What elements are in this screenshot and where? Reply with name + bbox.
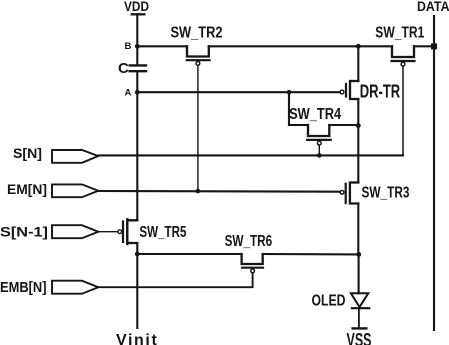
wire capacitor bottom plate to node A: [136, 72, 138, 92]
wire node B to capacitor top plate: [136, 46, 138, 64]
wire SW_TR2 gate to EM[N] net: [197, 66, 199, 192]
power VSS terminal bar: [353, 327, 367, 329]
svg-text:SW_TR3: SW_TR3: [362, 185, 410, 202]
svg-text:A: A: [125, 88, 132, 99]
transistor SW_TR5 gate bubble: [118, 230, 122, 234]
transistor DR-TR gate bubble: [340, 90, 344, 94]
wire node A to DR-TR gate: [137, 91, 339, 93]
wire SW_TR1 gate to S[N] net: [402, 66, 404, 155]
transistor SW_TR1 gate bar: [392, 60, 415, 62]
input EM[N] flag: [52, 184, 98, 197]
transistor SW_TR6 gate bar: [242, 267, 263, 269]
svg-text:DATA: DATA: [417, 0, 449, 14]
wire OLED cathode to VSS: [358, 309, 360, 327]
wire S[N] net: [99, 154, 403, 156]
transistor SW_TR3 gate bar: [345, 184, 347, 203]
svg-text:EMB[N]: EMB[N]: [0, 279, 47, 296]
wire DR-TR source down to SW_TR3: [357, 99, 359, 183]
wire SW_TR2 drain to node at DR-TR drain: [209, 45, 358, 47]
power VDD terminal bar: [132, 13, 145, 15]
wire SW_TR6 drain to OLED node: [263, 253, 359, 255]
net DATA vertical line: [433, 16, 435, 330]
transistor SW_TR6 channel: [242, 254, 263, 264]
junction SW_TR6 drain on OLED branch: [356, 252, 361, 257]
svg-text:OLED: OLED: [312, 293, 346, 310]
transistor SW_TR2 gate bubble: [196, 62, 200, 66]
transistor SW_TR1 channel: [392, 46, 414, 57]
input S[N-1] flag: [52, 225, 98, 238]
svg-text:S[N]: S[N]: [13, 145, 42, 161]
wire SW_TR1 drain to DATA: [414, 45, 434, 47]
net Vinit vertical wire upper segment: [136, 92, 138, 220]
svg-text:VSS: VSS: [347, 331, 372, 345]
transistor SW_TR3 channel: [350, 183, 358, 204]
junction top wire / DR-TR drain: [356, 44, 361, 49]
transistor SW_TR4 channel: [308, 125, 329, 136]
wire OLED anode: [358, 254, 360, 293]
wire SW_TR5 drain down Vinit line: [136, 243, 138, 328]
transistor DR-TR channel: [350, 81, 358, 99]
svg-text:Vinit: Vinit: [116, 332, 158, 345]
diode OLED cathode bar: [352, 307, 369, 309]
wire SW_TR4 gate to S[N] net: [318, 145, 320, 155]
transistor SW_TR3 gate bubble: [340, 190, 344, 194]
wire junction to SW_TR6 source: [137, 253, 241, 255]
transistor DR-TR gate bar: [345, 84, 347, 97]
svg-text:SW_TR5: SW_TR5: [139, 224, 186, 241]
wire EMB[N] net: [99, 273, 253, 287]
svg-text:DR-TR: DR-TR: [360, 81, 401, 102]
capacitor C bottom plate: [130, 70, 146, 72]
svg-text:VDD: VDD: [124, 0, 149, 14]
svg-text:SW_TR1: SW_TR1: [375, 25, 424, 42]
transistor SW_TR4 gate bubble: [317, 141, 321, 145]
input EMB[N] flag: [52, 281, 98, 294]
junction SW_TR4 gate on S[N] net: [317, 153, 322, 158]
transistor SW_TR2 channel: [187, 46, 209, 56]
transistor SW_TR5 channel: [127, 220, 137, 243]
transistor SW_TR5 channel bar: [126, 219, 128, 244]
transistor SW_TR2 gate bar: [187, 59, 210, 61]
wire VDD to node B: [136, 14, 138, 46]
capacitor C top plate: [130, 64, 146, 66]
wire EM[N] net: [99, 190, 340, 193]
wire node B to SW_TR2 source: [137, 45, 187, 47]
junction SW_TR2 gate on EM[N] net: [196, 189, 201, 194]
svg-text:B: B: [125, 41, 132, 52]
wire SW_TR4 drain to DR-TR source line: [329, 124, 358, 126]
wire S[N-1] to SW_TR5 gate: [99, 231, 118, 233]
junction SW_TR4 drain on DR-TR source line: [356, 123, 361, 128]
transistor SW_TR5 gate bar: [122, 222, 124, 243]
junction SW_TR5 drain / SW_TR6 branch: [135, 252, 140, 257]
transistor SW_TR4 gate bar: [307, 139, 331, 141]
transistor SW_TR6 gate bubble: [251, 269, 255, 273]
transistor DR-TR drain wire: [357, 46, 359, 81]
svg-text:C: C: [118, 60, 129, 77]
wire node A branch down to SW_TR4 source: [288, 92, 290, 125]
svg-text:EM[N]: EM[N]: [7, 181, 47, 197]
wire SW_TR4 source lead: [289, 124, 308, 126]
transistor SW_TR1 gate bubble: [401, 62, 405, 66]
input S[N] flag: [52, 150, 98, 163]
svg-text:SW_TR6: SW_TR6: [225, 233, 273, 250]
junction node A wire / SW_TR4 source branch: [287, 90, 292, 95]
wire junction to SW_TR1 source: [358, 45, 392, 47]
svg-text:SW_TR4: SW_TR4: [289, 106, 341, 123]
diode OLED triangle: [351, 293, 368, 307]
node A: [135, 90, 140, 95]
junction SW_TR1 drain on DATA: [431, 43, 437, 49]
wire SW_TR3 source down to OLED: [357, 204, 359, 255]
node B: [135, 44, 140, 49]
svg-text:S[N-1]: S[N-1]: [0, 224, 48, 240]
svg-text:SW_TR2: SW_TR2: [171, 25, 223, 42]
